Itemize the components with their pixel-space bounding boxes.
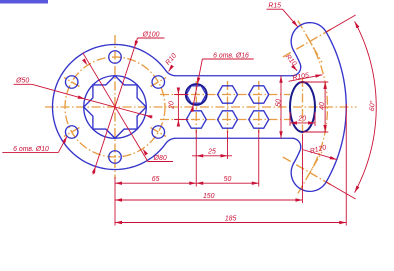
svg-text:Ø80: Ø80 [153,155,167,162]
svg-text:50: 50 [224,176,232,183]
svg-text:40: 40 [319,102,326,110]
svg-text:20: 20 [297,116,306,123]
svg-text:50: 50 [275,99,282,107]
svg-text:Ø100: Ø100 [142,32,160,39]
svg-text:65: 65 [152,176,160,183]
svg-text:6 отв. Ø10: 6 отв. Ø10 [13,146,49,153]
svg-text:25: 25 [207,149,216,156]
svg-text:6 отв. Ø16: 6 отв. Ø16 [213,53,249,60]
svg-text:60°: 60° [368,100,377,111]
svg-text:20: 20 [168,101,175,110]
svg-text:Ø50: Ø50 [15,78,29,85]
svg-text:185: 185 [225,215,237,222]
svg-text:R15: R15 [268,3,281,10]
svg-text:150: 150 [203,193,215,200]
